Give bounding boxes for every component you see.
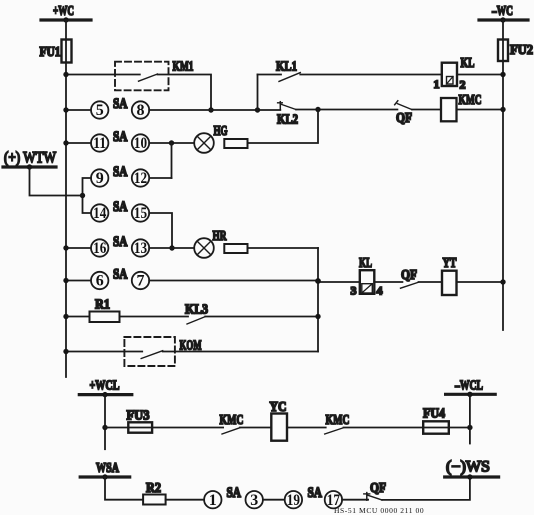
svg-text:15: 15	[134, 205, 147, 222]
svg-text:–WC: –WC	[491, 4, 513, 19]
svg-text:QF: QF	[370, 481, 386, 496]
wire WCL vertical	[104, 395, 106, 450]
fuse FU4	[423, 407, 449, 434]
svg-text:FU1: FU1	[40, 45, 61, 60]
wire row3 right riser to KL2 row	[248, 110, 319, 144]
fuse FU3	[127, 409, 153, 433]
node WSA	[80, 461, 130, 480]
svg-text:FU3: FU3	[127, 409, 150, 424]
svg-text:8: 8	[137, 102, 145, 119]
wire WSA down to bottom row	[105, 477, 143, 500]
wire to WS	[382, 477, 470, 500]
wire row6 to lamp	[149, 247, 194, 249]
svg-text:(−)WS: (−)WS	[446, 459, 490, 476]
svg-text:1: 1	[209, 492, 217, 509]
svg-text:HG: HG	[214, 124, 228, 139]
node -WC	[479, 4, 528, 23]
svg-text:10: 10	[134, 135, 147, 152]
contactor contact KM1	[115, 60, 194, 91]
svg-text:4: 4	[377, 284, 383, 298]
svg-text:7: 7	[137, 273, 145, 290]
svg-text:KMC: KMC	[220, 413, 244, 428]
wire KM1 to row2	[158, 75, 212, 111]
svg-text:QF: QF	[401, 268, 417, 283]
svg-text:FU4: FU4	[423, 407, 445, 422]
svg-text:WSA: WSA	[96, 461, 120, 476]
signal relay coil KL pins 3-4	[351, 256, 383, 298]
switch SA contact 9-12	[91, 164, 149, 187]
svg-text:5: 5	[96, 102, 104, 119]
svg-text:KL: KL	[461, 56, 475, 71]
node -WCL	[446, 379, 496, 397]
svg-text:+WCL: +WCL	[90, 379, 120, 394]
svg-text:–WCL: –WCL	[454, 379, 483, 394]
wire right bus	[502, 20, 504, 330]
node +WC	[41, 4, 91, 23]
wire WTW to rows 9-14	[30, 167, 83, 196]
resistor after HG	[224, 139, 247, 148]
wire row6 right	[248, 247, 319, 249]
resistor R1	[63, 298, 119, 323]
svg-text:KM1: KM1	[173, 60, 194, 75]
svg-text:12: 12	[134, 170, 147, 187]
svg-text:YT: YT	[443, 256, 457, 271]
wire row7 left	[66, 280, 91, 282]
svg-text:14: 14	[93, 205, 106, 222]
svg-text:11: 11	[93, 135, 106, 152]
svg-text:KL3: KL3	[185, 303, 208, 318]
switch SA contact 19-17	[285, 485, 342, 509]
node (+) WTW	[3, 150, 56, 170]
breaker aux contact QF	[395, 101, 412, 126]
relay contact KL2	[277, 102, 298, 128]
switch SA contact 11-10	[91, 129, 149, 152]
svg-text:SA: SA	[113, 267, 128, 283]
breaker aux contact QF (bottom)	[364, 481, 386, 500]
svg-text:KMC: KMC	[326, 413, 350, 428]
svg-text:SA: SA	[113, 199, 128, 215]
wire row3 left	[66, 142, 91, 144]
switch SA contact 5-8	[91, 96, 149, 119]
wire 9 left	[83, 178, 92, 213]
wire KM1 row	[66, 74, 140, 76]
wire row2 left	[66, 109, 91, 111]
fuse FU2	[498, 40, 533, 62]
svg-text:16: 16	[93, 240, 106, 257]
svg-text:HR: HR	[213, 229, 228, 244]
svg-text:6: 6	[96, 273, 104, 290]
svg-text:13: 13	[134, 240, 147, 257]
svg-text:9: 9	[96, 170, 104, 187]
signal relay coil KL pins 1-2	[434, 56, 475, 92]
wire mid vertical	[317, 248, 319, 352]
svg-text:(+) WTW: (+) WTW	[4, 150, 56, 167]
svg-text:SA: SA	[113, 129, 128, 145]
svg-text:R1: R1	[95, 298, 110, 313]
resistor R2	[143, 481, 166, 505]
relay contact KL1	[276, 60, 300, 82]
contactor contact KMC (left)	[220, 413, 244, 434]
resistor after HR	[224, 244, 247, 253]
switch SA contact 6-7	[91, 267, 149, 290]
lamp HR	[194, 229, 227, 258]
svg-text:KL2: KL2	[277, 113, 298, 128]
closing coil YC	[270, 400, 288, 441]
node (-)WS	[445, 459, 499, 480]
breaker aux contact QF (middle)	[401, 268, 419, 288]
wire KL1 branch riser	[257, 75, 259, 111]
relay contact KOM	[124, 337, 201, 366]
svg-text:SA: SA	[227, 485, 242, 501]
wire row9 left	[66, 351, 142, 353]
switch SA contact 16-13	[91, 234, 149, 257]
wire drop 10-12	[171, 143, 173, 178]
svg-text:2: 2	[460, 78, 466, 92]
wire row2 middle	[149, 109, 280, 111]
wire left bus	[65, 20, 67, 377]
svg-text:R2: R2	[146, 481, 161, 496]
wire row3 to lamp	[149, 142, 194, 144]
svg-text:SA: SA	[113, 234, 128, 250]
svg-text:3: 3	[351, 284, 357, 298]
wire row8	[120, 316, 189, 318]
lamp HG	[194, 124, 227, 153]
svg-text:YC: YC	[270, 400, 287, 415]
svg-text:KL1: KL1	[276, 60, 297, 75]
svg-text:QF: QF	[396, 111, 412, 126]
svg-text:KL: KL	[359, 256, 372, 271]
wire 15 down to row6	[149, 213, 172, 248]
svg-text:KMC: KMC	[459, 93, 482, 108]
contactor coil KMC	[441, 93, 482, 121]
svg-text:FU2: FU2	[510, 43, 533, 58]
fuse FU1	[40, 40, 72, 63]
trip coil YT	[442, 256, 457, 295]
relay contact KL3	[185, 303, 208, 325]
svg-text:SA: SA	[308, 485, 323, 501]
switch SA contact 14-15	[91, 199, 149, 222]
svg-text:SA: SA	[113, 164, 128, 180]
svg-text:SA: SA	[113, 96, 128, 112]
contactor contact KMC (right)	[325, 413, 350, 434]
wire row2 right	[296, 109, 397, 111]
svg-text:19: 19	[287, 492, 300, 509]
svg-text:3: 3	[250, 492, 258, 509]
wire row6 left	[66, 247, 91, 249]
svg-text:HS-51 MCU 0000 211 00: HS-51 MCU 0000 211 00	[334, 506, 424, 515]
wire row7 middle	[149, 280, 318, 282]
svg-text:1: 1	[434, 77, 440, 91]
switch SA contact 1-3	[204, 485, 263, 509]
node +WCL	[79, 379, 132, 398]
svg-text:+WC: +WC	[53, 4, 74, 19]
